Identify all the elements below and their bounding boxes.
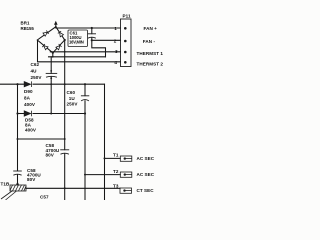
svg-text:T2: T2 — [113, 169, 119, 174]
svg-text:400V: 400V — [24, 102, 36, 107]
svg-text:THERMST 1: THERMST 1 — [137, 51, 164, 56]
svg-text:FAN -: FAN - — [143, 39, 156, 44]
svg-text:250V: 250V — [67, 101, 79, 106]
svg-text:AC SEC: AC SEC — [137, 156, 155, 161]
svg-text:CT SEC: CT SEC — [137, 188, 155, 193]
svg-text:AC SEC: AC SEC — [137, 172, 155, 177]
svg-text:FAN +: FAN + — [144, 26, 158, 31]
svg-text:16V,MIN: 16V,MIN — [69, 40, 84, 45]
svg-text:THERMST 2: THERMST 2 — [137, 62, 164, 67]
svg-text:C57: C57 — [40, 194, 49, 199]
svg-text:8A: 8A — [24, 96, 31, 101]
svg-text:C62: C62 — [31, 62, 40, 67]
svg-text:4U: 4U — [31, 68, 38, 73]
svg-text:1U: 1U — [69, 96, 76, 101]
svg-text:T3: T3 — [113, 184, 119, 189]
svg-text:3: 3 — [115, 49, 118, 54]
svg-text:80V: 80V — [46, 153, 55, 158]
svg-text:T1: T1 — [113, 153, 119, 158]
svg-text:4: 4 — [114, 60, 117, 65]
svg-text:250V: 250V — [31, 75, 43, 80]
svg-text:2: 2 — [114, 39, 117, 44]
svg-text:80V: 80V — [27, 177, 36, 182]
svg-text:C60: C60 — [67, 90, 76, 95]
svg-text:400V: 400V — [25, 128, 37, 133]
svg-text:D90: D90 — [24, 89, 33, 94]
svg-text:P11: P11 — [123, 14, 131, 19]
svg-text:T1B: T1B — [1, 182, 10, 187]
svg-text:RB155: RB155 — [21, 26, 35, 31]
svg-text:1: 1 — [114, 26, 117, 31]
